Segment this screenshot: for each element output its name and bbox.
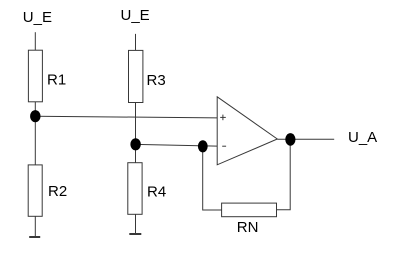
svg-text:U_E: U_E bbox=[23, 9, 52, 26]
svg-text:RN: RN bbox=[237, 219, 259, 236]
svg-text:U_A: U_A bbox=[348, 129, 377, 146]
svg-text:R3: R3 bbox=[147, 72, 166, 89]
svg-text:R1: R1 bbox=[47, 72, 66, 89]
svg-text:R2: R2 bbox=[48, 183, 67, 200]
svg-text:U_E: U_E bbox=[121, 7, 150, 24]
svg-text:R4: R4 bbox=[147, 184, 166, 201]
